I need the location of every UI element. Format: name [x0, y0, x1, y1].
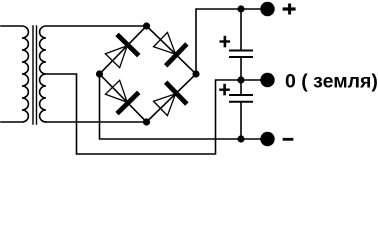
bridge side bottom-right: [147, 74, 197, 122]
bridge side top-right: [147, 26, 197, 74]
node: zero rail / C1 C2 junction: [237, 76, 244, 83]
bridge side left-bottom: [100, 74, 147, 122]
wire capacitor rail bottom: [240, 102, 242, 139]
node: plus rail / C1 junction: [237, 5, 244, 12]
diode VD4 (bottom node to right node): [154, 82, 187, 115]
terminal: zero (ground) output: [260, 73, 274, 87]
node: bridge left junction: [96, 70, 103, 77]
wire secondary bottom lead to bridge bottom node: [46, 121, 147, 123]
node: bridge right junction: [192, 70, 199, 77]
node: bridge bottom junction: [143, 118, 150, 125]
diode VD3 (left node to bottom node): [105, 80, 138, 113]
terminal: minus output: [260, 132, 274, 146]
wire bridge right node to plus rail: [196, 9, 268, 74]
node: bridge top junction: [143, 22, 150, 29]
wire capacitor rail middle: [240, 57, 242, 95]
label minus at terminal: [283, 138, 294, 141]
C2 polarity plus mark: [219, 89, 230, 91]
diode VD1 (left node to top node): [105, 34, 138, 67]
node: minus rail / C2 junction: [237, 135, 244, 142]
capacitor C2 plates: [229, 95, 253, 102]
transformer core: [33, 26, 37, 124]
transformer T1 primary winding: [1, 26, 28, 122]
wire center tap to 0 rail: [46, 74, 268, 154]
wire bridge left node to minus rail: [100, 74, 268, 139]
label plus at terminal: [283, 7, 296, 10]
capacitor C1 plates: [229, 51, 253, 58]
wire capacitor rail top: [240, 9, 242, 51]
C1 polarity plus mark: [220, 40, 231, 42]
diode VD2 (top node to right node): [154, 32, 187, 65]
transformer T1 secondary winding: [40, 26, 147, 122]
svg-text:0 ( земля): 0 ( земля): [285, 71, 378, 93]
terminal: plus output: [260, 2, 274, 16]
bridge side left-top: [100, 26, 147, 74]
